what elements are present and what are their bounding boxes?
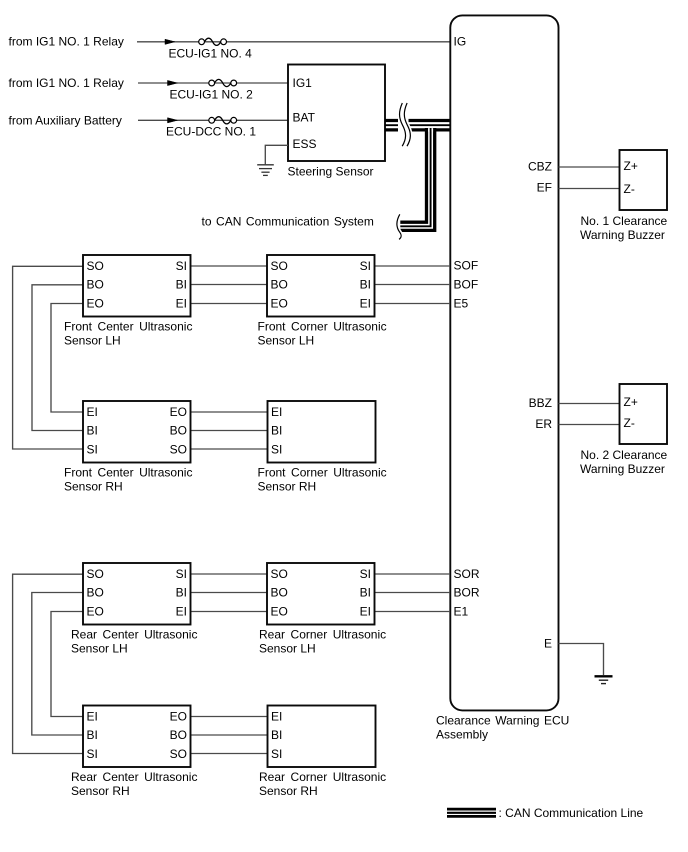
svg-text:Sensor LH: Sensor LH [259,642,316,656]
svg-text:Rear Center Ultrasonic: Rear Center Ultrasonic [71,628,197,642]
svg-text:Front Center Ultrasonic: Front Center Ultrasonic [64,320,192,334]
svg-text:BOF: BOF [454,278,479,292]
svg-text:ECU-IG1 NO. 4: ECU-IG1 NO. 4 [169,47,253,61]
svg-text:Rear Center Ultrasonic: Rear Center Ultrasonic [71,770,197,784]
svg-text:from IG1 NO. 1 Relay: from IG1 NO. 1 Relay [9,35,124,49]
svg-text:ER: ER [535,417,552,431]
svg-text:Steering Sensor: Steering Sensor [288,164,374,178]
svg-text:ECU-DCC NO. 1: ECU-DCC NO. 1 [166,125,256,139]
svg-text:: CAN Communication Line: : CAN Communication Line [499,806,644,820]
svg-text:Sensor LH: Sensor LH [64,334,121,348]
svg-text:Front Corner Ultrasonic: Front Corner Ultrasonic [258,466,387,480]
svg-text:Sensor RH: Sensor RH [71,784,130,798]
svg-text:BAT: BAT [293,110,316,124]
svg-text:Rear Corner Ultrasonic: Rear Corner Ultrasonic [259,628,386,642]
svg-text:Z+: Z+ [624,159,638,173]
svg-text:Rear Corner Ultrasonic: Rear Corner Ultrasonic [259,770,386,784]
svg-text:Sensor RH: Sensor RH [258,480,317,494]
svg-text:to CAN Communication System: to CAN Communication System [202,214,374,228]
svg-text:Z+: Z+ [624,395,638,409]
svg-text:SOR: SOR [454,567,480,581]
svg-text:Sensor LH: Sensor LH [258,334,315,348]
svg-text:ESS: ESS [293,137,317,151]
svg-text:No. 1 Clearance: No. 1 Clearance [581,214,668,228]
svg-text:Warning Buzzer: Warning Buzzer [580,462,665,476]
svg-text:Sensor RH: Sensor RH [64,480,123,494]
svg-text:Front Corner Ultrasonic: Front Corner Ultrasonic [258,320,387,334]
svg-text:Z-: Z- [624,182,635,196]
svg-text:Sensor LH: Sensor LH [71,642,128,656]
svg-text:Assembly: Assembly [436,727,488,741]
svg-text:BOR: BOR [454,586,480,600]
svg-text:from Auxiliary Battery: from Auxiliary Battery [9,114,122,128]
svg-text:EF: EF [537,181,552,195]
svg-text:No. 2 Clearance: No. 2 Clearance [581,448,668,462]
svg-text:IG1: IG1 [293,76,313,90]
svg-text:Clearance Warning ECU: Clearance Warning ECU [436,713,569,727]
svg-text:SOF: SOF [454,258,479,272]
svg-text:from IG1 NO. 1 Relay: from IG1 NO. 1 Relay [9,76,124,90]
svg-text:Front Center Ultrasonic: Front Center Ultrasonic [64,466,192,480]
svg-text:IG: IG [454,35,467,49]
svg-text:Z-: Z- [624,416,635,430]
svg-text:ECU-IG1 NO. 2: ECU-IG1 NO. 2 [170,88,254,102]
svg-text:Sensor RH: Sensor RH [259,784,318,798]
svg-text:E5: E5 [454,297,469,311]
svg-text:E: E [544,637,552,651]
svg-text:BBZ: BBZ [529,396,552,410]
svg-text:E1: E1 [454,605,469,619]
svg-text:Warning Buzzer: Warning Buzzer [580,228,665,242]
svg-text:CBZ: CBZ [528,159,552,173]
